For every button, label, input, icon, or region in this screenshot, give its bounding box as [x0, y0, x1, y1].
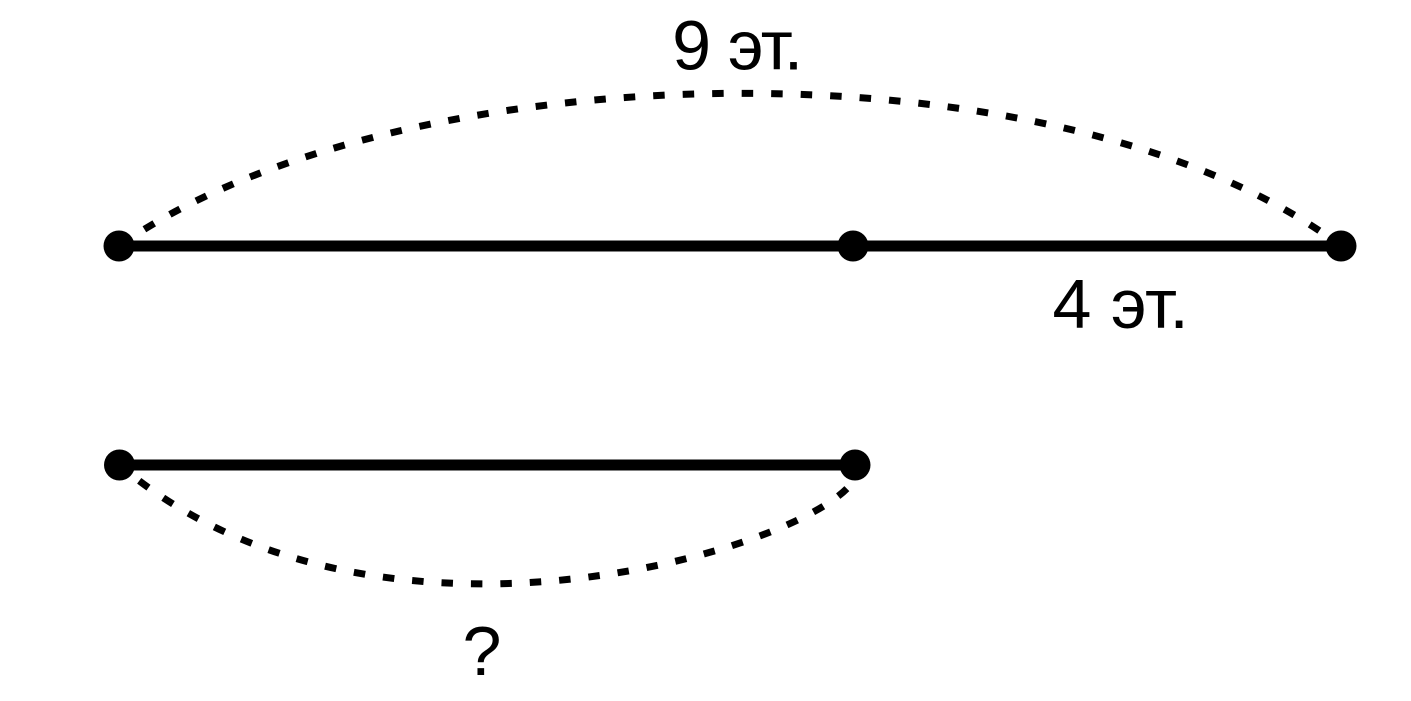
node D (lower right dot) [840, 450, 871, 481]
node M (upper middle dot) [838, 231, 869, 262]
node A (upper left dot) [104, 231, 135, 262]
svg-text:?: ? [463, 612, 502, 690]
lower segment CD [120, 460, 856, 471]
node B (upper right dot) [1326, 231, 1357, 262]
svg-text:9 эт.: 9 эт. [672, 7, 802, 85]
node C (lower left dot) [104, 450, 135, 481]
upper segment AB [119, 241, 1341, 252]
upper arc brace (9 floors) [119, 93, 1341, 246]
lower arc brace (?) [120, 465, 857, 584]
svg-text:4 эт.: 4 эт. [1053, 265, 1189, 343]
